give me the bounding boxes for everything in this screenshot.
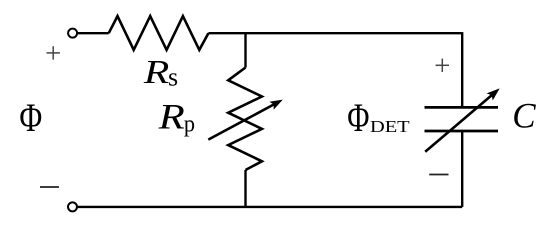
svg-text:R: R xyxy=(143,54,170,91)
svg-text:p: p xyxy=(184,111,195,138)
svg-text:DET: DET xyxy=(370,118,410,137)
svg-text:Φ: Φ xyxy=(347,95,369,140)
svg-text:R: R xyxy=(158,97,185,137)
svg-text:C: C xyxy=(512,95,536,135)
svg-text:Φ: Φ xyxy=(19,95,42,140)
svg-text:s: s xyxy=(168,62,178,91)
